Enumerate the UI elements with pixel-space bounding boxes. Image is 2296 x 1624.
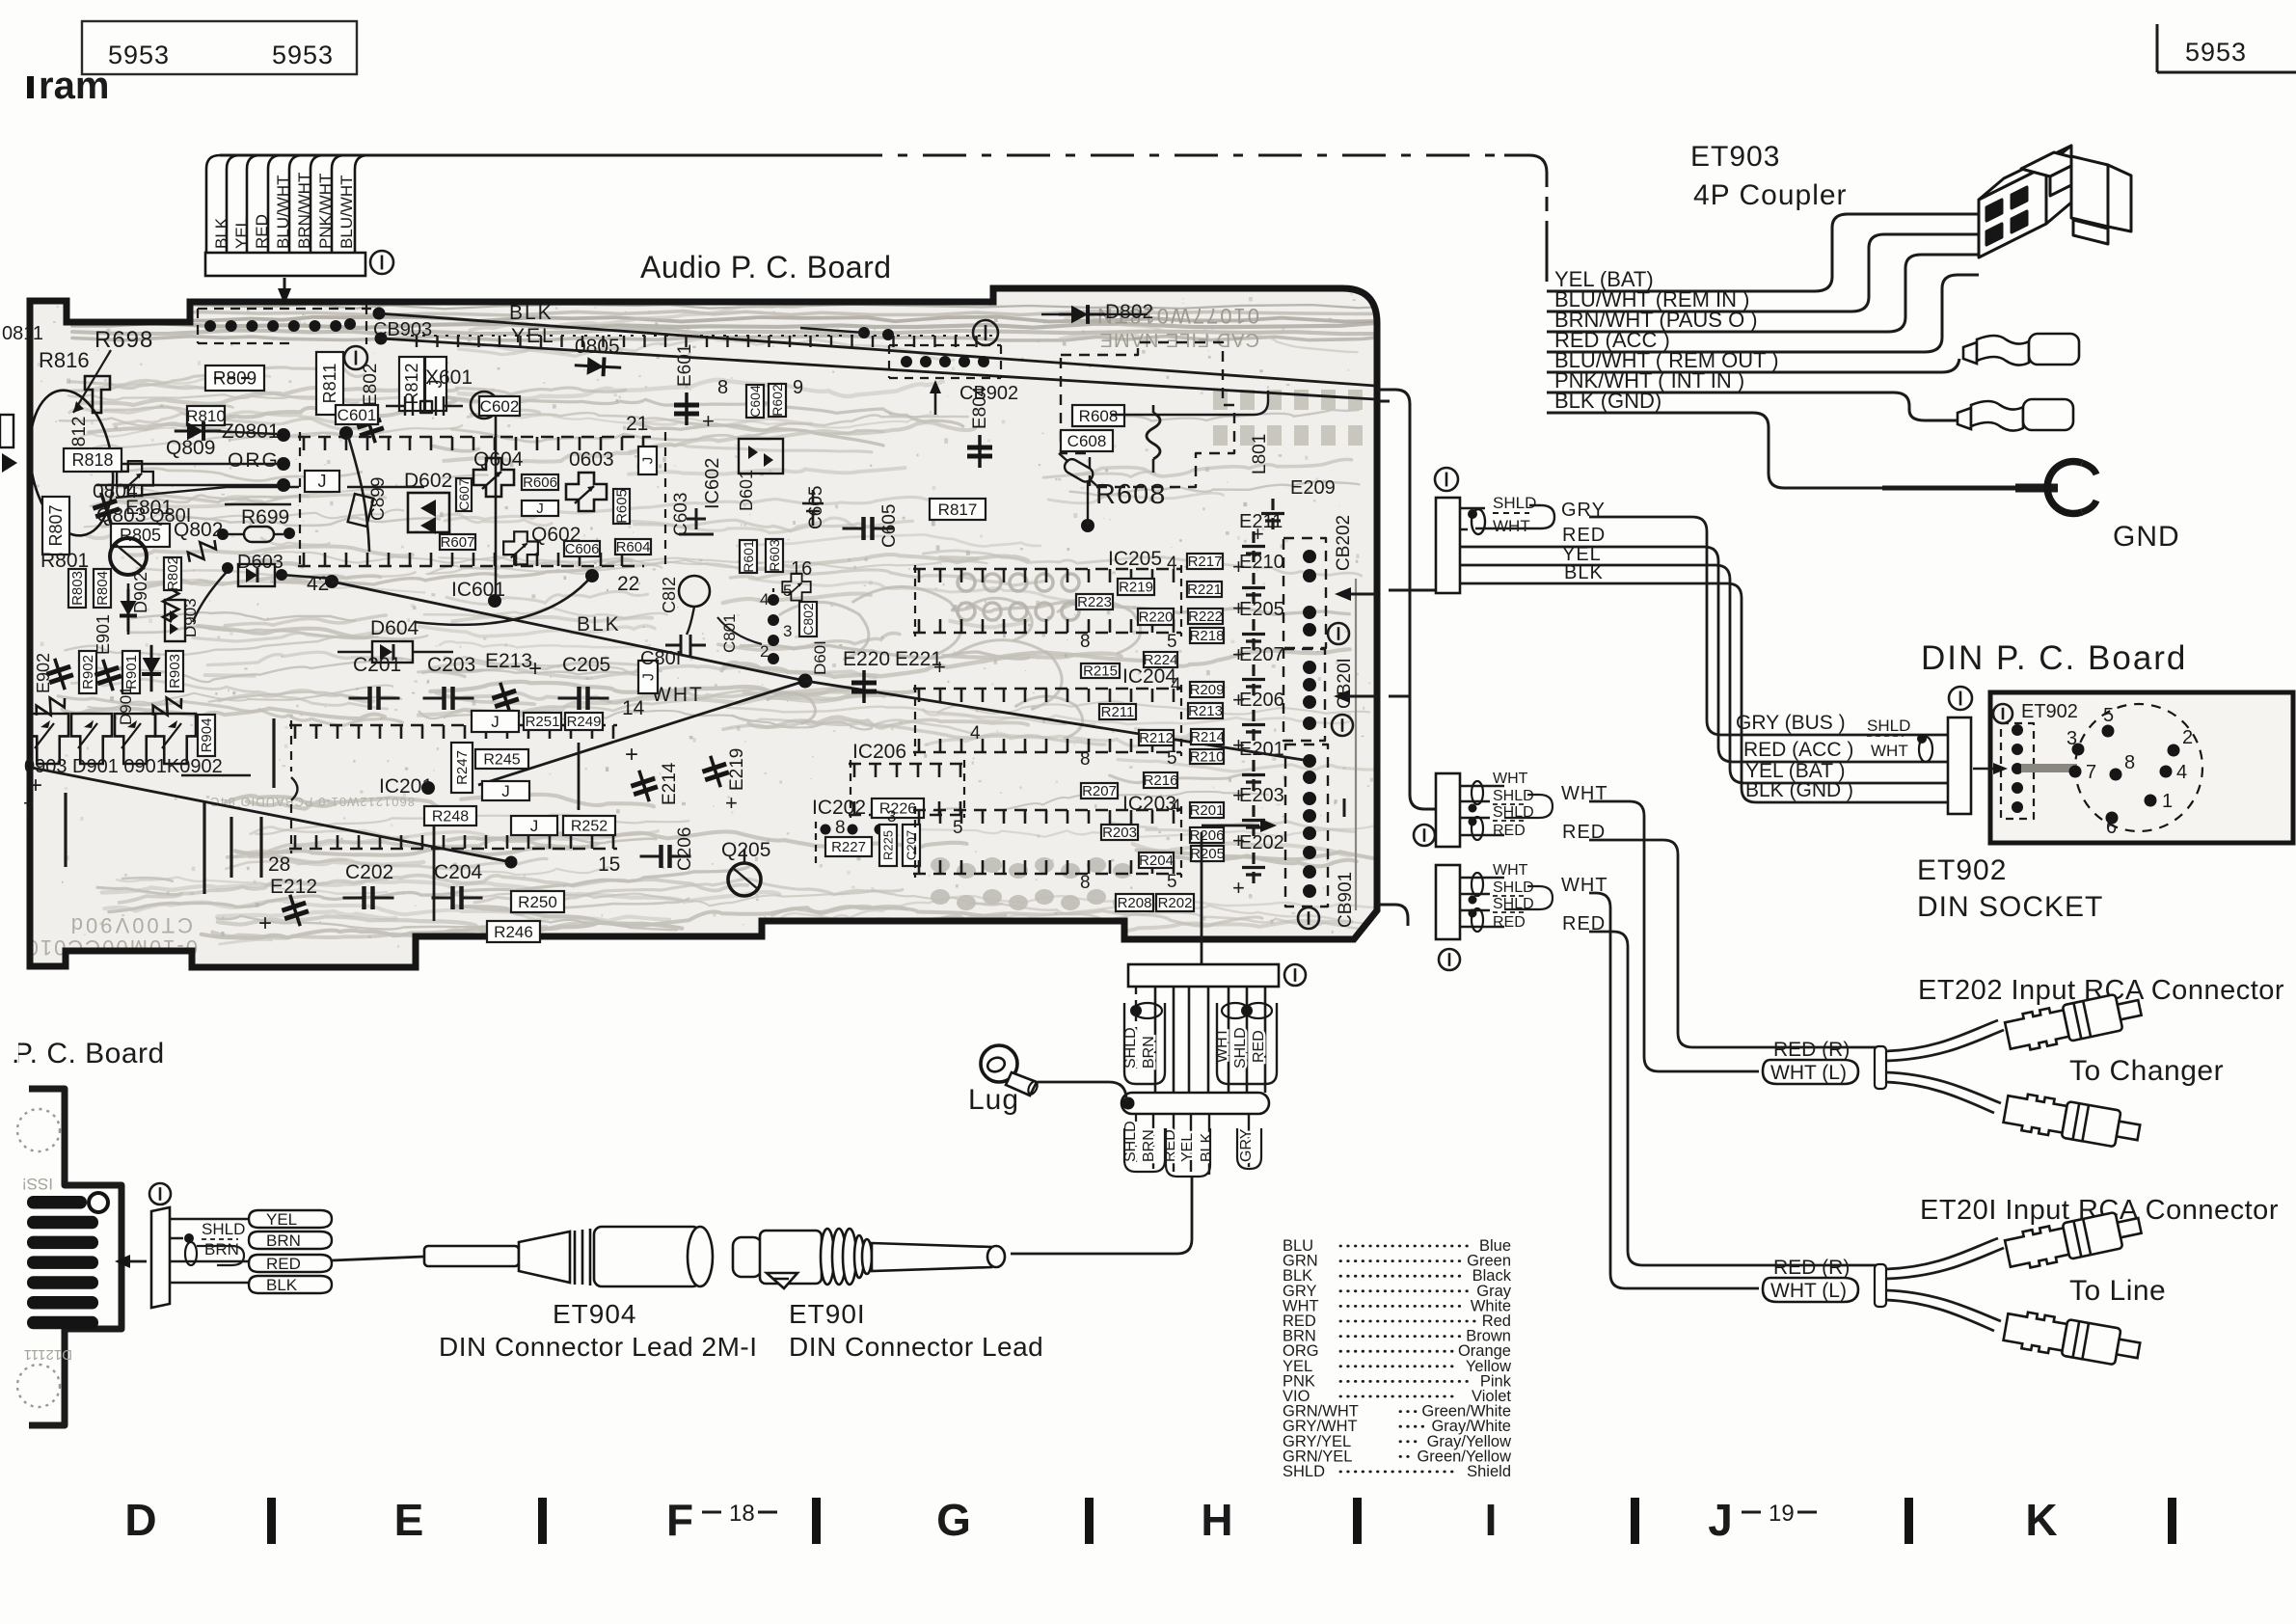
svg-text:E212: E212 <box>270 876 317 898</box>
svg-text:D: D <box>124 1495 156 1545</box>
svg-text:R203: R203 <box>1102 825 1137 841</box>
wire PNK/WHT INT IN to bullet2 <box>1547 392 1958 420</box>
harness wire channels <box>206 155 220 253</box>
connector CB903 dashed outline <box>198 308 371 310</box>
svg-text:R206: R206 <box>1190 827 1225 844</box>
mark 1 bundle <box>1284 964 1306 986</box>
svg-text:BRN/WHT: BRN/WHT <box>295 173 313 249</box>
wire RED to ET202 <box>1589 840 1882 1047</box>
capacitor E801 <box>89 489 122 528</box>
svg-text:H: H <box>1201 1495 1232 1545</box>
pointer line R698 to Q812 <box>73 350 111 413</box>
svg-text:E211: E211 <box>1239 511 1283 532</box>
svg-text:D12111: D12111 <box>24 1346 72 1363</box>
svg-text:R225: R225 <box>880 830 895 860</box>
card edge connector black fingers <box>27 1196 87 1209</box>
resistor R219 <box>1118 579 1154 595</box>
svg-text:R699: R699 <box>241 506 289 528</box>
pad circle C812 <box>679 576 710 607</box>
jumper J below C205 <box>638 661 658 693</box>
svg-text:R215: R215 <box>1083 663 1118 680</box>
svg-text:RED: RED <box>253 214 271 249</box>
svg-text:2: 2 <box>760 642 769 661</box>
svg-text:28: 28 <box>268 853 290 876</box>
resistor R225 <box>879 825 897 866</box>
svg-text:R214: R214 <box>1190 729 1225 745</box>
wire stub to CB901 group <box>1377 905 1408 926</box>
svg-text:K: K <box>2025 1495 2057 1545</box>
resistor R810 <box>187 406 225 425</box>
svg-text:CB20I: CB20I <box>1335 658 1355 709</box>
svg-text:R601: R601 <box>741 540 756 573</box>
svg-text:RED (R): RED (R) <box>1773 1039 1850 1061</box>
DIN plug ET904 <box>424 1227 713 1286</box>
svg-text:RED: RED <box>266 1255 301 1273</box>
resistor R203 <box>1101 825 1138 840</box>
svg-text:PNK/WHT: PNK/WHT <box>316 174 335 249</box>
svg-text:DIN Connector Lead 2M-I: DIN Connector Lead 2M-I <box>439 1332 758 1362</box>
svg-text:To Line: To Line <box>2069 1275 2166 1307</box>
shield dot and ellipse group1 <box>1130 1005 1142 1016</box>
bundle wires below connector <box>1135 987 1137 1069</box>
DIN plug ET901 <box>733 1229 1005 1288</box>
svg-text:4P Coupler: 4P Coupler <box>1693 179 1848 211</box>
mark 1 bar2 <box>1414 825 1435 846</box>
resistor R245 <box>475 749 528 769</box>
svg-text:+: + <box>1232 876 1245 900</box>
svg-text:5953: 5953 <box>272 41 334 69</box>
partial title text ram <box>27 76 34 98</box>
svg-text:E205: E205 <box>1239 599 1284 620</box>
svg-text:C202: C202 <box>345 861 393 883</box>
ET904 harness labels <box>170 1219 249 1283</box>
resistor R249 <box>565 713 603 730</box>
svg-text:R217: R217 <box>1188 554 1223 570</box>
wire down to ET901 lead <box>1011 1177 1192 1254</box>
RCA plug ET201 lower <box>2003 1309 2142 1368</box>
svg-text:R208: R208 <box>1118 895 1152 911</box>
svg-text:WHT: WHT <box>1493 771 1528 787</box>
svg-text:J: J <box>640 673 657 681</box>
svg-text:ORG: ORG <box>228 449 280 472</box>
resistor R214 <box>1191 729 1224 744</box>
diode D601 box <box>739 439 783 474</box>
resistor R217 <box>1187 554 1223 569</box>
resistor R901 <box>122 651 140 693</box>
svg-text:5: 5 <box>1167 872 1177 892</box>
svg-text:WHT: WHT <box>652 684 704 706</box>
svg-text:18: 18 <box>729 1501 755 1527</box>
svg-text:BRN: BRN <box>266 1232 301 1250</box>
svg-text:R606: R606 <box>523 474 557 491</box>
svg-text:Shield: Shield <box>1467 1463 1511 1480</box>
wire trunk from board right edge <box>1377 390 1436 809</box>
page number 5953 top right <box>2156 24 2159 72</box>
cable to ET904 plug <box>332 1257 424 1260</box>
svg-text:R807: R807 <box>46 504 66 546</box>
svg-text:8: 8 <box>1080 749 1091 770</box>
resistor R224 <box>1144 652 1177 667</box>
svg-text:C605: C605 <box>879 504 900 548</box>
resistor R807 <box>42 497 69 555</box>
arrow right of R206 <box>1201 832 1203 964</box>
resistor R207 <box>1081 783 1118 798</box>
resistor R803 <box>68 569 86 608</box>
node YEL pin <box>375 333 388 345</box>
resistor R251 <box>524 713 561 730</box>
svg-text:DIN P. C. Board: DIN P. C. Board <box>1921 639 2187 677</box>
wire RED to ET201 <box>1589 932 1882 1265</box>
resistor R802 <box>164 557 181 590</box>
svg-text:E220: E220 <box>843 648 890 670</box>
wire BLK across board <box>379 313 1375 386</box>
coupler ET903 4P body <box>1979 146 2131 257</box>
mark 1 CB201 <box>1332 715 1353 736</box>
svg-text:C604: C604 <box>747 385 763 418</box>
svg-text:7: 7 <box>23 799 34 821</box>
svg-text:Q802: Q802 <box>174 519 223 541</box>
svg-text:SHLD: SHLD <box>1283 1463 1325 1480</box>
svg-text:C606: C606 <box>565 541 600 557</box>
DIN socket dashed circle <box>2075 704 2202 831</box>
svg-text:0603: 0603 <box>569 448 614 471</box>
IC202 dots <box>821 825 831 835</box>
capacitor C601 <box>336 405 378 424</box>
svg-text:RED: RED <box>1562 525 1606 546</box>
jumper J R812 <box>425 357 446 411</box>
svg-text:E213: E213 <box>485 650 532 672</box>
wire BLK GND to lug <box>1547 413 1882 488</box>
svg-text:R245: R245 <box>483 751 520 768</box>
svg-text:R209: R209 <box>1190 682 1225 698</box>
bullet connector 2 <box>1958 399 2073 431</box>
svg-text:C601: C601 <box>338 406 377 424</box>
svg-text:BRN: BRN <box>1141 1036 1157 1069</box>
svg-text:ET902: ET902 <box>2021 701 2078 722</box>
mark 1 CB202 <box>1328 623 1349 644</box>
svg-text:R803: R803 <box>69 571 86 606</box>
svg-text:C802: C802 <box>800 603 816 636</box>
ET904 connector bar <box>151 1207 170 1308</box>
svg-text:BLK (GND ): BLK (GND ) <box>1745 779 1853 801</box>
capacitor C604 <box>746 385 764 418</box>
ET902 pin column dashed <box>2001 723 2034 819</box>
IC IC201 outline <box>289 724 617 727</box>
IC IC601 outline <box>298 436 651 439</box>
connector CB802 dots <box>768 594 779 606</box>
svg-text:BLU/WHT: BLU/WHT <box>274 176 292 250</box>
jumper J center <box>522 501 558 516</box>
svg-text:R602: R602 <box>770 384 785 417</box>
svg-text:R607: R607 <box>441 534 475 551</box>
resistor R904 <box>198 715 215 756</box>
svg-text:E601: E601 <box>675 344 695 387</box>
board inner edge trace <box>1355 579 1357 910</box>
capacitor C607 <box>456 478 472 511</box>
wire RED to DIN board <box>1460 547 1948 762</box>
svg-text:Q803: Q803 <box>96 504 146 527</box>
svg-text:+: + <box>258 910 272 936</box>
svg-text:R204: R204 <box>1139 853 1174 869</box>
connector CB903 pins <box>204 320 216 332</box>
svg-text:CB901: CB901 <box>1336 872 1356 928</box>
svg-text:C206: C206 <box>675 827 695 871</box>
svg-text:BLK (GND): BLK (GND) <box>1554 389 1661 413</box>
svg-text:8: 8 <box>1080 873 1091 893</box>
svg-text:E: E <box>394 1495 424 1545</box>
svg-text:E219: E219 <box>727 748 747 791</box>
svg-text:0811: 0811 <box>2 323 43 344</box>
capsule group2 <box>1217 1003 1277 1084</box>
capacitor E219 <box>698 752 732 791</box>
svg-text:R251: R251 <box>526 714 560 730</box>
svg-text:C605: C605 <box>806 486 826 529</box>
wire lower-left diagonal <box>32 768 511 862</box>
wire WHT to ET201 <box>1589 893 1759 1288</box>
board hole top <box>17 1109 60 1151</box>
svg-text:E202: E202 <box>1239 832 1284 853</box>
svg-text:IC602: IC602 <box>702 458 723 509</box>
grid reference ticks <box>267 1498 276 1544</box>
svg-text:R219: R219 <box>1119 580 1153 596</box>
resistor R223 <box>1076 594 1113 609</box>
svg-text:IC601: IC601 <box>451 579 505 601</box>
svg-text:SHLD: SHLD <box>1867 717 1910 735</box>
svg-text:22: 22 <box>617 573 639 595</box>
svg-text:R817: R817 <box>938 501 978 519</box>
bar2 wires and labels <box>1460 786 1504 835</box>
resistor R204 <box>1139 853 1174 868</box>
svg-text:1: 1 <box>2162 791 2173 812</box>
svg-text:BLU/WHT: BLU/WHT <box>338 176 356 250</box>
svg-text:E206: E206 <box>1239 690 1284 711</box>
wire YEL to DIN board <box>1460 565 1948 783</box>
svg-text:C899: C899 <box>368 477 389 521</box>
svg-text:C608: C608 <box>1067 432 1107 450</box>
svg-text:C204: C204 <box>434 861 483 883</box>
svg-text:WHT: WHT <box>1871 742 1908 760</box>
svg-text:4: 4 <box>1171 797 1181 817</box>
jumper J inside IC601 <box>305 471 339 492</box>
connector bar for DIN lead <box>1436 498 1460 593</box>
svg-text:ET902: ET902 <box>1917 854 2007 886</box>
svg-text:J: J <box>491 713 500 731</box>
svg-text:R220: R220 <box>1139 609 1174 626</box>
resistor R247 <box>451 743 473 793</box>
svg-text:GRY: GRY <box>1238 1128 1255 1162</box>
jumper J vertical right of IC601 <box>638 447 657 474</box>
svg-text:IC206: IC206 <box>852 741 906 763</box>
svg-text:R816: R816 <box>39 348 90 372</box>
connector CB201 pins <box>1303 661 1316 674</box>
resistor R605 <box>613 489 630 524</box>
svg-text:R810: R810 <box>186 407 226 425</box>
svg-text:SHLD: SHLD <box>1493 880 1534 896</box>
junction dot lug wire <box>1122 1097 1135 1110</box>
svg-text:G: G <box>936 1495 971 1545</box>
svg-text:J: J <box>536 501 544 517</box>
svg-text:D903: D903 <box>181 598 200 637</box>
svg-text:I: I <box>1485 1495 1498 1545</box>
connector CB901 dashed box <box>1285 744 1328 907</box>
svg-text:WHT (L): WHT (L) <box>1770 1280 1847 1302</box>
svg-text:L801: L801 <box>1250 434 1270 474</box>
svg-text:C207: C207 <box>904 830 918 860</box>
svg-text:BRN: BRN <box>1141 1129 1157 1162</box>
resistor R210 <box>1190 749 1224 764</box>
CB903 mark 1 <box>344 346 367 369</box>
svg-text:9: 9 <box>793 377 803 398</box>
svg-text:ET90I: ET90I <box>789 1299 866 1329</box>
dot on IC601 pin row <box>339 426 353 440</box>
svg-text:Q205: Q205 <box>721 839 770 861</box>
harness top bus wire <box>220 154 839 157</box>
wire from IC201 up-right <box>478 681 805 785</box>
capacitor C602 <box>479 396 520 416</box>
shield ellipse bar1 <box>1472 509 1485 534</box>
svg-text:R227: R227 <box>831 839 866 855</box>
svg-text:DIN SOCKET: DIN SOCKET <box>1917 891 2103 923</box>
svg-text:J: J <box>1708 1495 1733 1545</box>
svg-text:R802: R802 <box>165 556 181 591</box>
connector bar2 <box>1436 773 1460 847</box>
connector CB901 pins <box>1303 754 1316 768</box>
svg-text:R213: R213 <box>1188 703 1223 719</box>
capacitor C802 <box>799 602 817 636</box>
svg-text:E802: E802 <box>361 364 381 406</box>
resistor R804 <box>94 569 111 608</box>
arrow into card edge <box>115 1255 130 1268</box>
resistor R212 <box>1139 730 1174 745</box>
capacitor C207 <box>903 825 920 866</box>
resistor R606 <box>522 474 558 490</box>
resistor R902 <box>79 651 96 693</box>
black tick row under top edge <box>416 336 418 347</box>
arrow into CB202 <box>1335 587 1351 601</box>
svg-text:R249: R249 <box>567 714 602 730</box>
resistor R812 <box>399 357 424 411</box>
svg-text:RED: RED <box>1251 1030 1267 1063</box>
resistor R209 <box>1190 682 1224 697</box>
svg-text:WHT: WHT <box>1493 517 1530 535</box>
ground lug GND <box>1882 486 2015 491</box>
inductor L801 coil <box>1147 413 1160 459</box>
mark 1 CB901 <box>1298 907 1319 929</box>
resistor R205 <box>1191 846 1224 861</box>
svg-text:D603: D603 <box>237 552 284 573</box>
svg-text:To Changer: To Changer <box>2069 1055 2224 1087</box>
svg-text:C8I2: C8I2 <box>660 577 679 613</box>
resistor R604 <box>615 539 651 555</box>
connector CB202 dashed box <box>1283 538 1326 648</box>
svg-text:.: . <box>12 1038 19 1069</box>
svg-text:E901: E901 <box>94 614 113 655</box>
diode D903 box <box>165 600 185 641</box>
wire to CB901 pin <box>805 681 1310 761</box>
harness connector box <box>205 253 365 276</box>
svg-text:BLK: BLK <box>212 217 230 249</box>
resistor R218 <box>1190 628 1224 643</box>
resistor R202 <box>1156 894 1194 911</box>
arrow into CB201 <box>1334 690 1350 703</box>
svg-text:C203: C203 <box>427 654 475 676</box>
svg-text:RED: RED <box>1493 823 1526 839</box>
bottom bundle connector box <box>1128 964 1279 987</box>
connector CB902 pins <box>901 356 912 367</box>
svg-text:CAD FILE NAME: CAD FILE NAME <box>1099 329 1259 350</box>
wire from R608 to right edge <box>1111 391 1268 415</box>
page 19 marker <box>1742 1511 1761 1514</box>
connector CB201 dashed box <box>1283 649 1325 741</box>
svg-text:R603: R603 <box>767 539 782 572</box>
svg-text:4: 4 <box>760 590 769 609</box>
svg-text:ISS!: ISS! <box>22 1175 53 1193</box>
resistor R213 <box>1188 703 1223 718</box>
DIN socket pins <box>2102 725 2115 738</box>
svg-text:D602: D602 <box>404 470 452 492</box>
resistor R811 <box>316 352 343 415</box>
svg-text:YEL: YEL <box>232 218 251 249</box>
svg-text:F: F <box>666 1495 693 1545</box>
resistor R603 <box>766 539 783 572</box>
ET201 ferrule <box>1875 1264 1886 1307</box>
svg-text:C201: C201 <box>353 654 401 676</box>
junction dot left of CB903 <box>344 318 356 330</box>
connector bar3 <box>1436 865 1460 939</box>
svg-text:D604: D604 <box>370 617 419 639</box>
vertical trace lines center <box>64 793 67 867</box>
svg-text:4: 4 <box>1167 554 1177 574</box>
svg-text:Lug: Lug <box>968 1084 1019 1116</box>
svg-text:E210: E210 <box>1239 552 1284 573</box>
resistor R252 <box>563 816 615 835</box>
mark 1 bar1 <box>1435 468 1458 491</box>
wire arrow line to CB201 from trunk <box>1389 695 1410 698</box>
diode D902 <box>127 583 130 635</box>
IC IC205 <box>913 568 1181 571</box>
svg-text:SHLD: SHLD <box>1493 494 1536 512</box>
svg-text:E209: E209 <box>1290 477 1336 499</box>
svg-text:CT00V90d: CT00V90d <box>68 913 193 937</box>
resistor R201 <box>1190 802 1224 818</box>
svg-text:R211: R211 <box>1101 704 1135 720</box>
resistor R805 <box>111 524 170 547</box>
arrow up to CB902 <box>934 388 937 415</box>
svg-text:J: J <box>501 782 510 800</box>
node dots column <box>277 428 290 442</box>
svg-text:SHLD: SHLD <box>1232 1027 1249 1069</box>
svg-text:R218: R218 <box>1190 628 1225 644</box>
mark 1 near R812 <box>471 392 498 419</box>
RCA plug ET201 upper <box>2004 1207 2144 1271</box>
svg-text:R205: R205 <box>1190 846 1225 862</box>
DIN connector bar <box>1948 717 1971 814</box>
svg-text:3: 3 <box>887 807 896 826</box>
board hole bottom <box>17 1365 60 1407</box>
svg-text:R604: R604 <box>616 539 651 555</box>
svg-text:IC203: IC203 <box>1122 793 1176 815</box>
wire YEL across board <box>381 338 1375 399</box>
svg-text:+: + <box>702 409 715 433</box>
resistor R809 <box>205 365 264 391</box>
svg-text:R223: R223 <box>1077 594 1112 610</box>
arrow from harness into board <box>284 278 286 289</box>
svg-text:5: 5 <box>1167 632 1177 652</box>
wire ORG <box>116 487 424 498</box>
resistor R602 <box>769 384 786 417</box>
svg-text:C603: C603 <box>671 493 691 536</box>
resistor R226 <box>872 798 924 818</box>
